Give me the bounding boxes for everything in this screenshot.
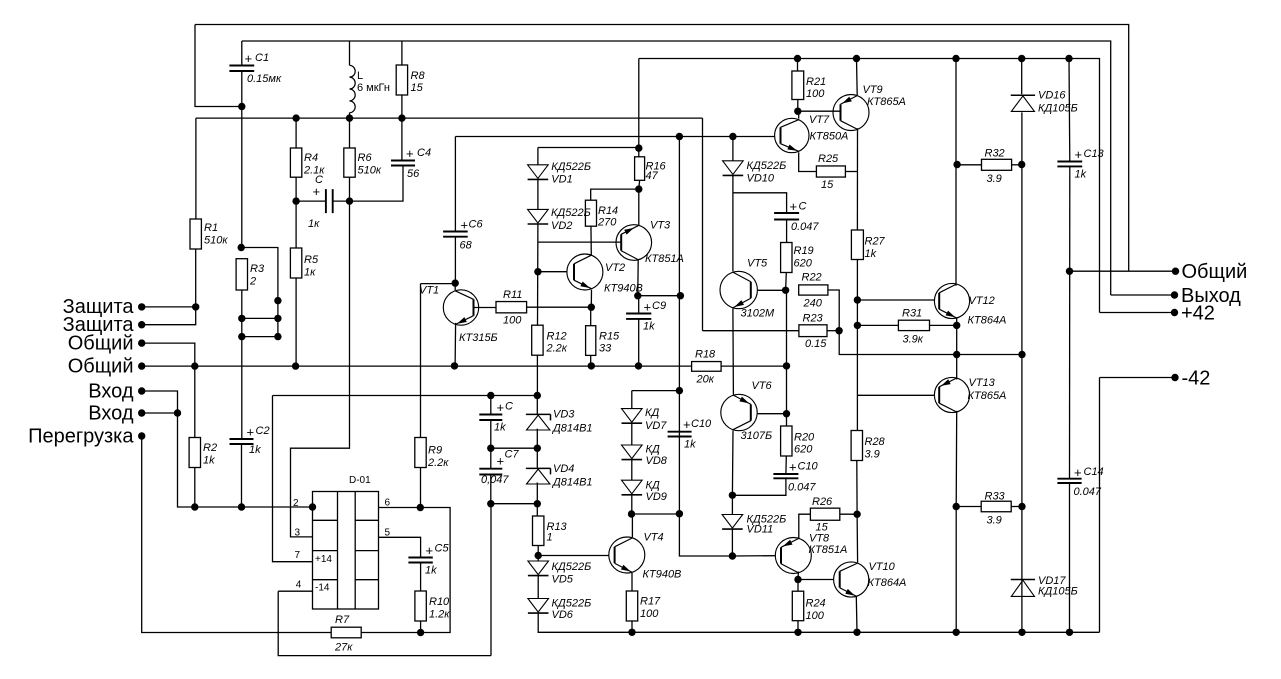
svg-text:C6: C6 [469, 219, 484, 231]
svg-text:+: + [790, 199, 798, 214]
svg-text:+: + [644, 300, 652, 315]
wire VT6 bottom to node [731, 431, 734, 496]
resistor R21 [792, 71, 804, 100]
svg-text:R23: R23 [803, 313, 824, 325]
wire L bottom lead [349, 113, 351, 118]
wire VD11 top lead [731, 495, 733, 514]
terminal Вход 1 [138, 387, 145, 394]
wire cap C left lead [296, 200, 326, 202]
wire VT4 collector stub [631, 514, 633, 537]
svg-text:+: + [247, 425, 255, 440]
wire VT7 collector stub [798, 111, 800, 118]
svg-text:КТ864А: КТ864А [968, 315, 1007, 327]
wire C14 bottom lead [1069, 483, 1071, 632]
resistor R11 [496, 302, 527, 313]
junction R11 R15 VT2e [588, 304, 595, 311]
junction VD3 VD4 [534, 445, 541, 452]
wire to R23 left [703, 330, 799, 332]
svg-text:0.047: 0.047 [1074, 486, 1102, 498]
wire R24 bottom lead [797, 621, 799, 633]
terminal Перегрузка [138, 432, 145, 439]
junction VT10 rail [853, 629, 860, 636]
svg-text:2: 2 [293, 498, 299, 509]
junction R15 rail366 [588, 362, 595, 369]
wire VT5 base lead [758, 289, 786, 291]
capacitor C9 [626, 314, 651, 319]
junction R13 VD5 VT4 base [535, 552, 542, 559]
svg-text:VD11: VD11 [747, 524, 774, 536]
wire y395 row [273, 395, 538, 397]
wire jumper 1 [242, 317, 278, 319]
wire R10 bottom lead [420, 621, 422, 633]
svg-text:+: + [245, 51, 253, 66]
svg-text:68: 68 [460, 240, 473, 252]
wire to R14 top [591, 189, 639, 200]
wire x703 down [702, 118, 704, 331]
junction VT3 C9 [634, 292, 641, 299]
resistor R1 [190, 219, 201, 249]
junction VT9 rail [853, 55, 860, 62]
wire to pin7 [273, 396, 313, 562]
svg-text:4: 4 [296, 580, 302, 591]
svg-text:R33: R33 [985, 491, 1006, 503]
capacitor C6 [443, 232, 468, 237]
svg-text:R14: R14 [598, 205, 618, 217]
transistor VT6 [721, 394, 757, 430]
wire VD9 bottom row [632, 513, 680, 515]
svg-text:3.9: 3.9 [987, 173, 1002, 185]
junction pin2 [309, 503, 316, 510]
wire input to pin2 [178, 413, 313, 507]
wire VT9 emitter stub [856, 59, 859, 96]
wire R8 bottom lead [401, 95, 403, 118]
wire C10 bottom to node [732, 478, 786, 495]
junction C7 top [487, 445, 494, 452]
wire VT13 base lead [857, 394, 934, 396]
wire cap to R19 [786, 220, 788, 243]
svg-text:VD1: VD1 [551, 174, 572, 186]
svg-text:C9: C9 [652, 300, 666, 312]
wire R3 bypass [241, 248, 278, 337]
wire pin5 to C5 [379, 537, 421, 557]
svg-text:1.2к: 1.2к [429, 609, 450, 621]
transistor VT3 [616, 225, 652, 261]
diode VD11 [722, 515, 743, 529]
wire VT1 node to R9 branch [421, 283, 456, 285]
svg-text:КТ865А: КТ865А [867, 96, 906, 108]
svg-text:1k: 1k [425, 565, 437, 577]
junction R26 right [853, 511, 860, 518]
wire R9 bottom lead [420, 468, 422, 508]
capacitor C10 0.047 [773, 474, 798, 478]
junction VD10 rail136 [729, 133, 736, 140]
junction jumper2 left [238, 333, 245, 340]
wire R16 bottom lead [638, 180, 641, 189]
wire cap C right lead [333, 200, 350, 202]
wire R6 top lead [349, 118, 351, 148]
junction C7 bottom [487, 500, 494, 507]
terminal Выход [1171, 291, 1178, 298]
svg-text:КТ851А: КТ851А [809, 544, 848, 556]
junction R16 VD1 [635, 144, 642, 151]
junction Общий out [1066, 268, 1073, 275]
svg-text:Общий: Общий [68, 333, 134, 355]
svg-text:R21: R21 [806, 76, 826, 88]
capacitor C4 [391, 161, 415, 166]
svg-text:VT4: VT4 [644, 532, 664, 544]
terminal Общий out [1172, 268, 1179, 275]
svg-text:VD7: VD7 [645, 420, 667, 432]
resistor R17 [626, 591, 637, 621]
wire VT1 emitter stub [454, 323, 457, 366]
zener VD4 [526, 467, 551, 469]
junction R19 R22 VT5b [782, 287, 789, 294]
svg-text:КТ865А: КТ865А [968, 390, 1007, 402]
wire R33 right lead [1011, 506, 1022, 508]
IC D-01 box [313, 492, 379, 610]
junction C6 VT1 [452, 279, 459, 286]
svg-text:R20: R20 [794, 432, 815, 444]
svg-text:R19: R19 [794, 245, 814, 257]
svg-text:C13: C13 [1084, 148, 1105, 160]
svg-text:C: C [799, 201, 807, 213]
junction VT6 C10 [729, 492, 736, 499]
wire Вход-1 to Вход-2 [142, 391, 178, 413]
resistor R13 [533, 516, 544, 546]
wire VD3-VD4 link [536, 429, 538, 468]
wire R31 left lead [857, 324, 898, 326]
svg-text:+: + [461, 218, 469, 233]
svg-text:R26: R26 [812, 496, 833, 508]
wire VD7 top lead [631, 391, 633, 409]
svg-text:КТ864А: КТ864А [868, 577, 907, 589]
terminal +42 [1171, 309, 1178, 316]
svg-text:VT5: VT5 [747, 258, 768, 270]
transistor VT12 [934, 283, 969, 318]
junction R24 rail [794, 629, 801, 636]
svg-text:Общий: Общий [68, 356, 134, 378]
wire VT13 down to R33 [955, 411, 958, 507]
svg-text:VD3: VD3 [553, 409, 575, 421]
svg-text:КД105Б: КД105Б [1038, 103, 1078, 115]
svg-text:C2: C2 [256, 425, 270, 437]
svg-text:КД522Б: КД522Б [551, 161, 591, 173]
diode VD7 [622, 409, 643, 423]
capacitor C1 [229, 66, 254, 72]
transistor VT7 [775, 118, 809, 152]
svg-text:R12: R12 [547, 331, 567, 343]
wire R28 to R26 [856, 461, 858, 515]
resistor R26 [810, 508, 839, 520]
svg-text:КД: КД [646, 444, 660, 456]
svg-text:15: 15 [821, 179, 834, 191]
junction VD11 VT8 base [729, 552, 736, 559]
capacitor C2 [230, 439, 254, 444]
svg-text:+: + [1074, 465, 1082, 480]
wire R21 top lead [797, 59, 799, 72]
wire VT12e to VT13 [956, 325, 958, 379]
capacitor C10 1k [668, 432, 692, 437]
resistor R8 [396, 65, 407, 95]
wire R20 to C10 [785, 456, 787, 474]
resistor R19 [781, 243, 792, 273]
wire C6 top lead [454, 137, 456, 232]
wire C9 bottom lead [638, 319, 640, 366]
svg-text:15: 15 [411, 82, 424, 94]
transistor VT10 [834, 562, 869, 597]
junction VD chain bottom row [676, 510, 683, 517]
wire VT3 base lead [538, 241, 621, 243]
wire C6 bottom lead [454, 237, 456, 283]
wire C4 bottom to node [350, 166, 404, 202]
transistor VT13 [934, 377, 969, 412]
wire top rail to Общий [195, 25, 1129, 272]
wire -42 row [1100, 377, 1176, 379]
terminal -42 [1171, 374, 1178, 381]
wire R24 top lead [797, 580, 799, 592]
wire rail y118 [196, 117, 703, 119]
wire rail y136 to VT7 base [455, 136, 774, 138]
wire VT7c to VT9 base [798, 110, 841, 112]
junction VT12 rail [952, 55, 959, 62]
wire VT2 base lead [538, 271, 567, 273]
junction R6 cap [346, 197, 353, 204]
wire R19 bottom lead [785, 273, 788, 291]
svg-text:620: 620 [794, 258, 813, 270]
svg-text:VD16: VD16 [1038, 90, 1066, 102]
junction VD2 VT2 base [534, 268, 541, 275]
wire C5 to R10 [420, 563, 422, 592]
wire VT10 collector stub [856, 514, 859, 562]
svg-text:R1: R1 [204, 222, 218, 234]
wire VT10 base lead [798, 579, 834, 581]
svg-text:КД: КД [646, 480, 660, 492]
wire VT7 emitter to R25 [799, 152, 817, 171]
wire R16 top lead [638, 59, 640, 157]
wire VD2 to R12 [537, 224, 539, 325]
svg-text:Общий: Общий [1182, 261, 1248, 283]
wire R1 bottom / Защита-2 row [142, 249, 196, 325]
wire R3 to C2 [241, 290, 243, 439]
wire VT5 emitter to VT6 [732, 309, 735, 395]
svg-text:1: 1 [547, 532, 553, 544]
junction VD9 row [676, 387, 683, 394]
svg-text:КД: КД [645, 407, 659, 419]
svg-text:1к: 1к [308, 218, 320, 230]
junction R2 bottom [191, 503, 198, 510]
svg-text:VT13: VT13 [969, 377, 996, 389]
wire VT1 base lead [474, 307, 497, 309]
svg-text:C5: C5 [435, 543, 450, 555]
svg-text:C10: C10 [798, 461, 819, 473]
wire C7 top lead [490, 448, 492, 469]
junction VD17 rail [1018, 629, 1025, 636]
svg-text:VT10: VT10 [869, 561, 896, 573]
diode VD1 [528, 165, 549, 179]
svg-text:+: + [426, 543, 434, 558]
wire VD7-VD8 link [631, 423, 633, 445]
svg-text:-42: -42 [1182, 368, 1211, 390]
wire x680 column [678, 137, 680, 514]
wire R32 left lead [957, 164, 981, 166]
junction VT8 VT10 R24 [794, 576, 801, 583]
transistor VT5 [720, 271, 757, 308]
wire R6 to pin3 [291, 177, 350, 537]
wire Общий rail y366 [142, 365, 787, 367]
wire R22 right lead [828, 290, 839, 331]
svg-text:3.9: 3.9 [865, 449, 880, 461]
diode VD9 [622, 480, 643, 494]
wire VT8 collector stub [797, 572, 799, 580]
wire VT12 collector column [955, 59, 957, 286]
wire C bottom lead [490, 420, 492, 448]
capacitor C5 [408, 558, 432, 563]
wire VD1 top link [538, 147, 639, 149]
wire VD9 bottom lead [631, 495, 633, 514]
wire R23 right lead [827, 330, 839, 332]
junction C top [487, 392, 494, 399]
wire C13 top lead [1068, 59, 1071, 162]
svg-text:VD8: VD8 [646, 455, 668, 467]
junction row354 [953, 351, 960, 358]
wire -42 down to rail [1099, 378, 1101, 633]
wire VT10 emitter to rail [855, 596, 858, 632]
junction VT12 base [854, 296, 861, 303]
svg-text:620: 620 [794, 444, 813, 456]
junction VD16 rail [1018, 55, 1025, 62]
capacitor C mid [479, 415, 502, 421]
diode VD8 [622, 445, 643, 459]
terminal Общий 1 [138, 339, 145, 346]
wire mid row [491, 447, 538, 449]
svg-text:VT2: VT2 [605, 262, 625, 274]
junction VT6 base [783, 410, 790, 417]
svg-text:R25: R25 [818, 153, 839, 165]
junction jumper1 right [274, 315, 281, 322]
svg-text:3102М: 3102М [741, 308, 775, 320]
svg-text:0.047: 0.047 [791, 221, 819, 233]
wire R33 left lead [956, 506, 981, 508]
svg-text:27к: 27к [334, 642, 353, 654]
svg-text:2.2к: 2.2к [546, 343, 568, 355]
wire VD5 top lead [537, 556, 539, 562]
svg-text:VD10: VD10 [747, 173, 775, 185]
svg-text:+: + [497, 454, 505, 469]
wire VT4 base lead [538, 555, 609, 557]
wire VT4 emitter stub [631, 573, 633, 591]
svg-text:R6: R6 [358, 152, 373, 164]
svg-text:КД522Б: КД522Б [552, 598, 592, 610]
junction R17 rail [628, 629, 635, 636]
svg-text:VD2: VD2 [551, 220, 572, 232]
svg-text:R5: R5 [304, 254, 319, 266]
svg-text:L: L [357, 70, 363, 82]
svg-text:0.15: 0.15 [805, 338, 827, 350]
svg-text:+: + [683, 417, 691, 432]
wire VD5-VD6 link [537, 576, 539, 599]
svg-text:47: 47 [646, 170, 659, 182]
wire VT6 base lead [757, 413, 786, 415]
svg-text:Перегрузка: Перегрузка [28, 426, 134, 448]
svg-text:VT3: VT3 [650, 220, 671, 232]
svg-text:2.2к: 2.2к [427, 457, 449, 469]
resistor R6 [344, 148, 355, 177]
junction L rail [346, 114, 353, 121]
svg-text:R2: R2 [203, 442, 217, 454]
svg-text:1k: 1k [643, 321, 655, 333]
svg-text:R7: R7 [335, 614, 350, 626]
wire R32 right lead [1012, 164, 1022, 166]
diode VD16 [1011, 94, 1035, 96]
junction C13 rail [1065, 55, 1072, 62]
svg-text:КТ851А: КТ851А [645, 253, 684, 265]
node R3 top [238, 244, 245, 251]
wire C top lead [490, 396, 492, 415]
svg-text:3: 3 [295, 528, 301, 539]
wire R8 top lead [401, 41, 403, 65]
junction R8 rail [398, 114, 405, 121]
junction R10 Перегрузка [417, 629, 424, 636]
svg-text:C1: C1 [255, 52, 269, 64]
svg-text:VT7: VT7 [809, 114, 830, 126]
wire R25 right lead [845, 171, 857, 173]
svg-text:Вход: Вход [88, 403, 134, 425]
svg-text:0.047: 0.047 [788, 482, 816, 494]
svg-text:33: 33 [599, 343, 612, 355]
wire Перегрузка down to R7 [142, 436, 332, 633]
junction C9 rail366 [635, 362, 642, 369]
resistor R4 [290, 148, 301, 177]
diode VD10 [723, 161, 744, 175]
resistor R5 [290, 248, 301, 278]
transistor VT8 [775, 538, 811, 574]
junction VT1e rail366 [451, 362, 458, 369]
wire Выход row [1111, 294, 1175, 296]
wire VT12 emitter stub [956, 318, 958, 326]
wire second rail to Выход [242, 41, 1111, 295]
capacitor C7 [479, 469, 502, 475]
svg-text:100: 100 [503, 315, 522, 327]
svg-text:VD4: VD4 [553, 463, 574, 475]
resistor R7 [331, 627, 361, 638]
junction VD9 VT4 [628, 510, 635, 517]
svg-text:Д814В1: Д814В1 [551, 423, 593, 435]
junction R16 R14 VT3 [635, 185, 642, 192]
resistor R16 [635, 157, 645, 181]
diode VD2 [528, 209, 549, 223]
junction R5 Общий [292, 362, 299, 369]
wire R7 right lead [361, 632, 419, 634]
svg-text:0.15мк: 0.15мк [247, 73, 282, 85]
junction C2 bottom [238, 503, 245, 510]
wire VD10 top lead [732, 137, 734, 161]
wire R21 bottom lead [797, 100, 799, 112]
svg-text:C4: C4 [417, 147, 431, 159]
wire VT12 base lead [857, 299, 934, 301]
svg-text:R11: R11 [503, 289, 522, 301]
svg-text:6 мкГн: 6 мкГн [357, 82, 390, 94]
wire R26 right lead [840, 513, 857, 515]
wire Общий-1 row [142, 343, 195, 366]
wire R11 right lead [527, 306, 592, 308]
junction R32 right [1018, 161, 1025, 168]
svg-text:C10: C10 [691, 418, 712, 430]
wire VT9 collector to R27 [856, 128, 858, 230]
wire VD16 top lead [1021, 59, 1023, 95]
svg-text:КТ850А: КТ850А [810, 131, 849, 143]
svg-text:7: 7 [295, 550, 301, 561]
svg-text:510к: 510к [358, 165, 382, 177]
